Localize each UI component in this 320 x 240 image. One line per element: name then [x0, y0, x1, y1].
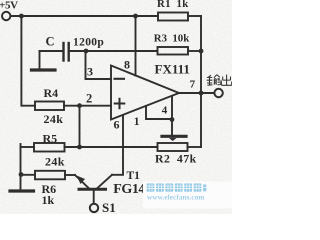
node R4/pin2 — [77, 103, 82, 108]
svg-text:R2 47k: R2 47k — [155, 151, 197, 165]
wire R6 left — [21, 174, 36, 176]
ground bar (capacitor) — [32, 68, 56, 71]
node R5/link — [77, 145, 82, 150]
wire pin 6 drop — [112, 115, 123, 175]
capacitor C plates — [62, 43, 64, 61]
resistor R5 — [34, 143, 65, 152]
resistor R1 — [158, 13, 188, 21]
svg-text:1k: 1k — [42, 193, 55, 207]
wire R1 to right rail — [188, 15, 201, 17]
wire R5 left — [21, 146, 35, 148]
node cap/pin3 — [84, 49, 89, 54]
ground bar (left rail) — [10, 189, 34, 192]
svg-text:6: 6 — [114, 118, 120, 132]
wire pin 3 drop and lead — [86, 51, 112, 79]
+5V terminal circle — [2, 12, 10, 20]
svg-text:R4: R4 — [44, 86, 59, 100]
svg-text:+5V: +5V — [0, 0, 18, 11]
svg-text:C: C — [46, 34, 55, 48]
svg-text:4: 4 — [162, 105, 168, 117]
wire R5 right to R2 left — [65, 146, 158, 148]
watermark backdrop — [143, 182, 232, 209]
svg-text:24k: 24k — [44, 112, 64, 126]
transistor T1 emitter arrowhead — [77, 176, 86, 185]
wire pin 4 — [171, 96, 173, 135]
svg-text:7: 7 — [190, 79, 196, 91]
svg-text:1: 1 — [134, 116, 140, 128]
wire pin 7 output — [179, 92, 214, 94]
wire cap node to R3 left — [70, 50, 158, 52]
paper background — [0, 0, 232, 214]
svg-text:FX111: FX111 — [155, 62, 190, 77]
node pin1/pin4 — [170, 117, 175, 122]
svg-text:R5: R5 — [43, 131, 58, 145]
svg-text:S1: S1 — [102, 200, 116, 214]
wire R3 right to rail — [188, 50, 201, 52]
label 输出 (output, hand-drawn strokes) — [207, 75, 232, 86]
wire base lead to S1 — [93, 191, 95, 204]
wire cap ground leg — [39, 51, 41, 69]
S1 terminal circle — [90, 204, 98, 212]
transistor T1 emitter diagonal — [75, 175, 89, 188]
output terminal circle — [214, 89, 222, 97]
op-amp plus sign — [115, 99, 125, 109]
wire right rail — [200, 16, 202, 147]
node R6/rail — [19, 172, 24, 177]
svg-text:FG14: FG14 — [113, 182, 145, 197]
svg-text:24k: 24k — [45, 155, 65, 169]
op-amp minus sign — [115, 78, 125, 80]
wire divider link — [79, 106, 81, 147]
ground nub triangle — [169, 138, 177, 141]
ground bar (pin4) — [162, 135, 186, 138]
resistor R4 — [35, 102, 64, 111]
node pin8 tap — [133, 14, 138, 19]
svg-text:2: 2 — [86, 91, 92, 105]
wire pin 1 — [146, 106, 172, 119]
wire left rail upper (+5V down to R4) — [21, 16, 35, 106]
wire top rail +5V to R1 — [11, 15, 158, 17]
svg-text:T1: T1 — [127, 170, 141, 182]
op-amp U1 FX111 triangle — [111, 66, 179, 120]
wire pin 8 drop — [135, 16, 137, 76]
resistor R6 — [35, 171, 65, 180]
wire pin 2 lead (R4 right to op-amp) — [64, 105, 111, 107]
node junction left rail top — [19, 14, 24, 19]
svg-text:3: 3 — [87, 65, 93, 79]
node R3/rail — [199, 49, 204, 54]
wire R6 right to emitter — [65, 174, 75, 176]
transistor T1 collector diagonal — [97, 175, 112, 189]
svg-text:8: 8 — [124, 57, 130, 71]
node pin7/rail — [199, 91, 204, 96]
svg-text:1200p: 1200p — [73, 36, 104, 48]
wire lower left rail — [20, 144, 22, 190]
resistor R2 — [158, 143, 188, 151]
svg-text:R1 1k: R1 1k — [157, 0, 189, 10]
svg-text:www.elecfans.com: www.elecfans.com — [147, 194, 205, 202]
svg-text:R3 10k: R3 10k — [154, 32, 189, 44]
transistor T1 bar — [79, 188, 106, 191]
wire cap left lead — [40, 50, 63, 52]
watermark line 1 (blue logo glyphs) — [147, 183, 207, 191]
resistor R3 — [158, 47, 189, 55]
wire R2 right to rail — [188, 146, 202, 148]
